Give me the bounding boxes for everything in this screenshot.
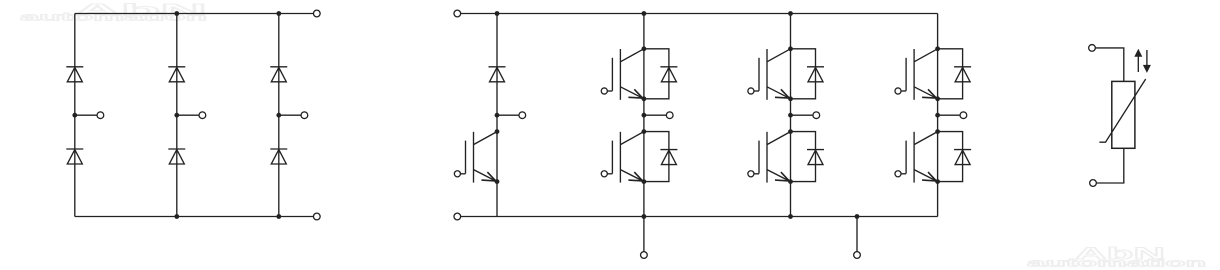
- terminal DC+ (rectifier): [313, 10, 320, 17]
- diode V4 (lower, leg 2): [168, 149, 185, 164]
- wire rectifier leg 1: [74, 14, 76, 217]
- diode lower free-wheel phase W: [938, 132, 972, 182]
- terminal bottom 2: [854, 252, 861, 259]
- diode lower free-wheel phase V: [791, 132, 825, 182]
- transistor lower IGBT phase V: [748, 132, 791, 183]
- wire rectifier leg 3: [278, 14, 280, 217]
- node bottom rail / terminal 2 junction: [855, 214, 860, 219]
- wire AC input phase 1: [75, 114, 97, 116]
- node lower group top junction phase U: [642, 129, 647, 134]
- diode lower free-wheel phase U: [644, 132, 678, 182]
- node lower group bottom junction phase W: [935, 179, 940, 184]
- node upper group top junction phase V: [788, 46, 793, 51]
- terminal DC+ (inverter): [454, 10, 461, 17]
- varistor R body: [1112, 81, 1135, 148]
- node lower group bottom junction phase U: [642, 179, 647, 184]
- wire brake chopper leg: [496, 14, 498, 217]
- transistor V8 (brake chopper IGBT): [454, 132, 497, 183]
- node chopper IGBT emitter: [495, 179, 500, 184]
- transistor lower IGBT phase W: [895, 132, 938, 183]
- wire rectifier DC+ top rail: [75, 13, 314, 15]
- node lower group bottom junction phase V: [788, 179, 793, 184]
- diode V7 (brake chopper): [489, 67, 506, 82]
- node leg V / top rail junction: [788, 11, 793, 16]
- watermark bottom-right: [1027, 244, 1207, 270]
- node leg 3 / bottom rail junction: [276, 214, 281, 219]
- transistor lower IGBT phase U: [601, 132, 644, 183]
- wire varistor bottom: [1096, 148, 1124, 183]
- node upper group bottom junction phase V: [788, 96, 793, 101]
- diode upper free-wheel phase U: [644, 49, 678, 99]
- node upper group bottom junction phase W: [935, 96, 940, 101]
- wire inverter leg W: [937, 14, 939, 217]
- node AC phase 3 junction: [276, 113, 281, 118]
- terminal bottom 1: [641, 252, 648, 259]
- diode V6 (lower, leg 3): [270, 149, 287, 164]
- terminal output phase V: [813, 112, 820, 119]
- terminal brake resistor R+: [519, 112, 526, 119]
- wire bottom terminal 1 drop: [643, 217, 645, 252]
- terminal DC- (rectifier): [313, 213, 320, 220]
- node output junction phase W: [935, 113, 940, 118]
- diode upper free-wheel phase V: [791, 49, 825, 99]
- transistor upper IGBT phase V: [748, 49, 791, 100]
- node output junction phase U: [642, 113, 647, 118]
- transistor upper IGBT phase W: [895, 49, 938, 100]
- wire output phase U: [644, 114, 667, 116]
- diode V1 (upper, leg 1): [66, 67, 83, 82]
- node AC phase 2 junction: [174, 113, 179, 118]
- node lower group top junction phase V: [788, 129, 793, 134]
- node leg U / bottom rail junction: [642, 214, 647, 219]
- wire brake resistor terminal: [497, 114, 519, 116]
- node leg 2 / bottom rail junction: [174, 214, 179, 219]
- terminal output phase U: [666, 112, 673, 119]
- node AC phase 1 junction: [72, 113, 77, 118]
- terminal output phase W: [960, 112, 967, 119]
- diode upper free-wheel phase W: [938, 49, 972, 99]
- wire AC input phase 2: [177, 114, 199, 116]
- diode V5 (upper, leg 3): [270, 67, 287, 82]
- terminal AC phase 2: [199, 112, 206, 119]
- node chopper IGBT collector: [495, 129, 500, 134]
- transistor upper IGBT phase U: [601, 49, 644, 100]
- arrow down (surge): [1146, 50, 1148, 65]
- varistor strike diagonal: [1099, 79, 1145, 142]
- arrow up (surge): [1137, 56, 1139, 72]
- svg-text:automation: automation: [1027, 258, 1207, 270]
- wire output phase V: [791, 114, 814, 116]
- node chopper / top rail junction: [495, 11, 500, 16]
- diode V3 (upper, leg 2): [168, 67, 185, 82]
- terminal AC phase 1: [97, 112, 104, 119]
- wire inverter DC+ top rail: [461, 13, 938, 15]
- wire AC input phase 3: [279, 114, 301, 116]
- terminal varistor top: [1089, 45, 1096, 52]
- diode V2 (lower, leg 1): [66, 149, 83, 164]
- wire inverter leg U: [643, 14, 645, 217]
- node leg 3 / top rail junction: [276, 11, 281, 16]
- wire varistor top: [1095, 48, 1124, 82]
- wire inverter leg V: [790, 14, 792, 217]
- terminal varistor bottom: [1090, 180, 1097, 187]
- wire output phase W: [938, 114, 961, 116]
- wire bottom terminal 2 drop: [856, 217, 858, 252]
- node output junction phase V: [788, 113, 793, 118]
- wire rectifier leg 2: [176, 14, 178, 217]
- node upper group top junction phase W: [935, 46, 940, 51]
- terminal AC phase 3: [301, 112, 308, 119]
- watermark top-left: [20, 1, 208, 24]
- wire rectifier DC- bottom rail: [75, 216, 314, 218]
- node leg U / top rail junction: [642, 11, 647, 16]
- node upper group bottom junction phase U: [642, 96, 647, 101]
- node upper group top junction phase U: [642, 46, 647, 51]
- node leg 2 / top rail junction: [174, 11, 179, 16]
- node chopper mid junction: [495, 113, 500, 118]
- terminal DC- (inverter): [454, 213, 461, 220]
- node leg V / bottom rail junction: [788, 214, 793, 219]
- node lower group top junction phase W: [935, 129, 940, 134]
- wire inverter DC- bottom rail: [461, 216, 938, 218]
